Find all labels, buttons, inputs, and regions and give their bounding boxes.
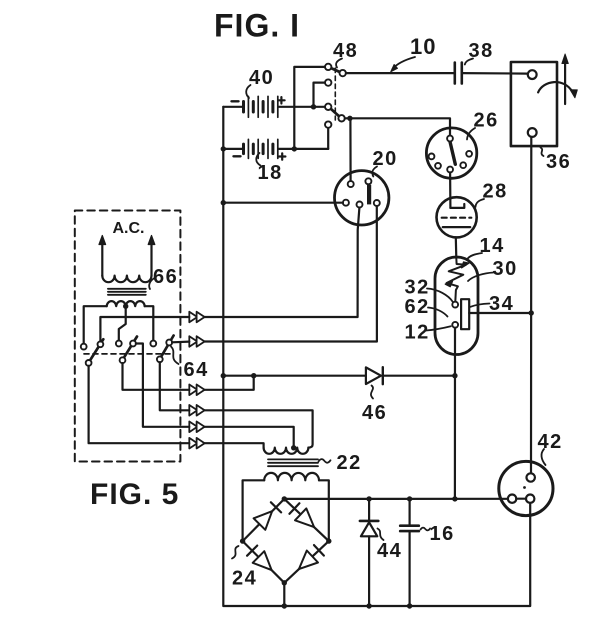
- transformer 22 core: [268, 459, 318, 466]
- node junction left vertical y=202.7: [221, 200, 226, 205]
- svg-text:26: 26: [474, 110, 499, 132]
- svg-text:22: 22: [337, 452, 362, 474]
- svg-text:34: 34: [489, 293, 514, 315]
- connector arrow 6: [189, 438, 197, 449]
- node junction battery 40 wire: [311, 104, 316, 109]
- battery 18 minus sign: [234, 155, 241, 157]
- svg-text:14: 14: [480, 235, 505, 257]
- connector arrow 2: [189, 336, 197, 347]
- bridge diode top-right: [295, 508, 314, 527]
- electrode plate 34: [461, 299, 469, 329]
- wire switch 64a pivot to connector arrow 6: [89, 366, 190, 443]
- dashed enclosure FIG.5: [75, 211, 181, 462]
- wire switch 48 to rotary switch 26: [345, 118, 450, 135]
- tube socket 20: [335, 171, 389, 225]
- switch 48 blade pole 1: [331, 68, 340, 72]
- wire left main vertical and bottom rail: [223, 107, 530, 606]
- svg-text:66: 66: [153, 266, 178, 288]
- svg-text:28: 28: [483, 181, 508, 203]
- connector arrow 4: [189, 405, 197, 416]
- tube 28: [437, 197, 477, 237]
- wire switch 64b right contact to connector arrow 5: [136, 344, 189, 427]
- transformer 22 primary: [264, 448, 309, 454]
- svg-text:48: 48: [333, 40, 358, 62]
- bridge 24 diamond: [243, 499, 329, 583]
- node dots bridge: [282, 496, 287, 501]
- svg-text:42: 42: [538, 431, 563, 453]
- svg-text:10: 10: [410, 34, 436, 59]
- wire junction down to socket 20: [349, 118, 351, 181]
- switch 64b blade: [124, 337, 137, 358]
- diode 44: [368, 499, 370, 520]
- node junctions on diode row: [221, 373, 226, 378]
- svg-text:30: 30: [493, 258, 518, 280]
- node transformer 22 center tap: [291, 445, 296, 450]
- transformer 66 primary: [102, 276, 151, 283]
- wire connector arrow 5 to transformer 22 center tap: [205, 427, 294, 448]
- socket 20 key bar: [367, 185, 371, 205]
- wire battery 18 right lead: [279, 148, 329, 150]
- box 36 motion arrow vertical: [564, 61, 566, 104]
- capacitor 38: [453, 63, 456, 84]
- svg-text:62: 62: [405, 296, 430, 318]
- node junction left vertical battery 18: [221, 146, 226, 151]
- transformer 66 core: [108, 289, 146, 295]
- svg-text:64: 64: [184, 359, 209, 381]
- node junction battery 18 wire: [292, 146, 297, 151]
- wire switch 64c right contact to connector arrow 2: [172, 341, 189, 344]
- svg-text:FIG. 5: FIG. 5: [90, 478, 179, 511]
- wire DC output row: [284, 498, 508, 500]
- wire switch 64c pivot to connector arrow 4: [160, 362, 190, 410]
- transformer 66 secondary: [107, 301, 145, 306]
- wire to socket 20 left pin: [223, 202, 343, 204]
- switch 48 gang dashed link: [334, 68, 336, 120]
- node junction on right vertical: [529, 310, 534, 315]
- battery 18 plus sign: [279, 153, 285, 159]
- box 36 motion arrow curved: [538, 82, 572, 92]
- wire switch 64b pivot to connector arrow 3: [123, 363, 190, 390]
- wire secondary center tap lead: [119, 306, 126, 340]
- bridge 24 side leads: [243, 480, 265, 541]
- connector arrow 5: [189, 422, 197, 433]
- switch 48 blade pole 2: [331, 109, 340, 117]
- wire box 36 to connector 42: [530, 137, 532, 473]
- wire 10 top: [346, 72, 455, 74]
- contact 12 lower: [452, 322, 458, 328]
- A.C. arrow left: [101, 243, 103, 276]
- battery 18: [244, 139, 278, 158]
- bridge diode bottom-left: [253, 551, 272, 570]
- wire 26 to 28: [449, 172, 451, 208]
- svg-text:24: 24: [232, 568, 257, 590]
- switch 64 contacts: [81, 344, 87, 350]
- connector arrow 1: [189, 312, 197, 323]
- wire connector arrow 6 to transformer 22 primary left: [205, 443, 264, 447]
- wire diode 46 row: [223, 375, 366, 377]
- wire battery 40 left lead: [223, 106, 242, 108]
- node junction at 350,118: [347, 116, 352, 121]
- wire connector arrow 3 branch: [205, 376, 254, 390]
- switch 48 wiring: [294, 67, 325, 149]
- svg-text:12: 12: [405, 322, 430, 344]
- contact 62 upper: [452, 302, 458, 308]
- wire socket pin to connector arrow 2: [205, 206, 377, 341]
- svg-text:16: 16: [430, 523, 455, 545]
- discharge lamp 14 envelope: [435, 257, 478, 355]
- diode 46: [366, 367, 381, 384]
- wire secondary left lead: [84, 306, 107, 344]
- capacitor 16: [409, 499, 411, 525]
- node transformer 66 center tap: [123, 304, 128, 309]
- wire battery 18 left lead: [223, 148, 242, 150]
- switch bank 64 gang dashed link: [84, 353, 171, 355]
- connector 42: [499, 461, 553, 515]
- wire 34 to right vertical: [469, 312, 531, 314]
- svg-text:36: 36: [546, 151, 571, 173]
- A.C. arrow right: [150, 243, 152, 276]
- wire battery 40 right lead: [279, 106, 326, 108]
- svg-text:44: 44: [377, 540, 402, 562]
- switch 64a blade: [90, 339, 103, 360]
- connector arrow 3: [189, 385, 197, 396]
- battery 40 minus sign: [232, 100, 239, 102]
- wire lamp bottom lead: [454, 328, 456, 499]
- switch 48 contacts: [325, 64, 331, 70]
- wire secondary right lead: [145, 306, 154, 340]
- battery 40: [244, 96, 278, 117]
- wire bridge bottom lead: [283, 583, 285, 606]
- wire socket pin to connector arrow 1: [205, 208, 360, 317]
- wire switch 64a right contact to connector arrow 1: [100, 317, 189, 341]
- svg-text:40: 40: [249, 67, 274, 89]
- battery 40 plus sign: [278, 97, 284, 103]
- spark electrode 30 zigzag: [447, 258, 466, 302]
- wire 28 to lamp 14: [455, 237, 458, 258]
- svg-text:FIG. I: FIG. I: [214, 8, 300, 44]
- electrode box 36: [511, 62, 557, 146]
- wire connector arrow 4 to transformer 22 primary right: [205, 410, 313, 447]
- bridge diode top-left: [254, 511, 273, 530]
- transformer 22 secondary: [264, 473, 319, 480]
- switch 64c blade: [161, 336, 174, 357]
- rotary switch 26: [426, 128, 476, 178]
- svg-text:A.C.: A.C.: [113, 220, 145, 237]
- svg-text:46: 46: [362, 402, 387, 424]
- bridge diode bottom-right: [299, 551, 318, 570]
